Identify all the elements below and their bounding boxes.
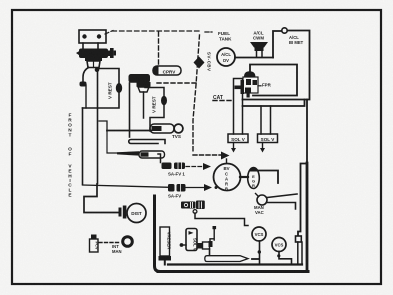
thermal vacuum switch TVS — [150, 124, 183, 133]
wire (dashed with arrow into carb) — [186, 166, 203, 168]
check valve CV1 (diamond on vent line) — [194, 57, 205, 69]
vacuum check solenoid VCS 2 — [272, 238, 286, 252]
wire (bus B, main bottom manifold) — [158, 270, 308, 273]
separator SA-FV 1 (dark ribbed fitting) — [162, 163, 172, 170]
fitting F3 (distributor hose ends) — [119, 208, 122, 217]
wire (V REST loop 2) — [145, 88, 164, 132]
wire (thick left supply bar) — [155, 196, 161, 272]
wire (FPR loop right) — [250, 65, 297, 96]
wire (EGR to right stub) — [258, 171, 279, 184]
wire (bus A, upper bottom manifold) — [168, 263, 302, 265]
wire (dashed from CPRV to fuel tank line) — [157, 82, 199, 84]
label MAN VAC — [254, 205, 264, 215]
manifold vacuum tap MAN VAC — [256, 194, 268, 206]
wire (VCS1 stem) — [259, 241, 261, 264]
wire (V REST loop 1) — [83, 69, 120, 109]
thermal vent valve TVV (dark double box) — [181, 201, 205, 210]
wire (stub to TVS branch) — [99, 121, 107, 131]
wire (straight drop from node A to manifold run) — [97, 68, 99, 184]
wire (legs connector C1 to valve V1) — [83, 43, 98, 48]
connector C1 (top-left two-bolt connector) — [79, 30, 106, 43]
wire (bi-met line to right drop R1) — [288, 31, 310, 164]
label FUEL TANK with dash-dot stub — [205, 31, 214, 33]
EGR valve — [248, 168, 260, 189]
wire (riser to bi-met connector) — [273, 31, 282, 58]
wire (dashed vertical fuel-tank vent line) — [193, 35, 200, 152]
wire (TVV to hook) — [195, 213, 248, 226]
distributor DIST — [127, 204, 146, 223]
restrictor VR1 (vacuum restrictor blob) — [116, 83, 122, 93]
label FRONT OF VEHICLE — [68, 113, 72, 199]
solenoid valve SOL V 3 (vertical box) — [186, 229, 197, 251]
node A (junction at valve V1 outlet) — [95, 68, 100, 73]
wire (hairpin loop) — [129, 140, 165, 144]
separator SA-FV (dark ribbed fitting) — [168, 184, 175, 192]
valve V2 (second vent valve, dark capsule) — [129, 74, 151, 92]
pump FPR (thermactor pump drawing) — [235, 71, 262, 97]
wire (left pipe from valve V1) — [83, 68, 89, 83]
hose run 2 (to SA-FV) — [83, 185, 170, 187]
connector N1 (open circle, A/CL BI MET tap) — [282, 28, 287, 33]
air cleaner delay valve A/CL DV — [217, 48, 235, 66]
wire (dashed signal line from connector C1 to node over fuel tank) — [105, 31, 199, 35]
taper nipple on hose run 1 — [117, 151, 139, 155]
wire (right drop R1 lower thick section to bottom bus) — [306, 163, 309, 271]
label INT MAN — [112, 244, 122, 254]
wire (dashed drop to CPRV pin) — [158, 32, 160, 65]
wire (dashed PCV to intake manifold) — [99, 242, 120, 244]
wire (branch to TVS) — [107, 130, 151, 132]
wire (arrow into carb lower port) — [184, 187, 204, 189]
wire (VCS2 stem and elbow right) — [279, 252, 292, 264]
node square N2 — [296, 236, 302, 242]
wire (dash segments toward VCS1 stem) — [252, 258, 259, 260]
wire (bus y99.5) — [243, 99, 308, 101]
vacuum reservoir VRESER — [159, 227, 172, 265]
wire (A/CL DV to CWM legs) — [235, 57, 273, 59]
valve fitting F2 (right of SOL V 3) — [197, 226, 217, 249]
wire (elbow to SA-FV 1) — [158, 154, 161, 163]
solenoid valve SOL V 2 — [258, 134, 278, 153]
wire (valve V2 center drop) — [143, 92, 145, 118]
valve V1 (carb fuel bowl vent valve, dark capsule) — [76, 48, 116, 68]
PCV valve — [90, 235, 100, 253]
wire (solenoid valve 1 loop to FPR port) — [234, 79, 271, 135]
wire (long left vertical to SA-FV run) — [82, 108, 84, 185]
wire (branch R2 down to node square) — [298, 164, 307, 237]
hose H1 (outlined tapered hose along bus A) — [205, 256, 248, 262]
carburetor CARB — [214, 164, 241, 192]
intake manifold port INT MAN (thick ring) — [123, 237, 133, 247]
elbow fitting E1 — [80, 82, 87, 87]
vacuum check solenoid VCS 1 — [252, 227, 266, 241]
solenoid valve SOL V 1 — [228, 134, 248, 153]
wire (carb to EGR) — [240, 176, 248, 178]
wire (bus y106 with right corner up) — [243, 100, 305, 107]
restrictor VR2 (vacuum restrictor blob) — [161, 96, 167, 106]
wire (dot-arrow into SOL V 3) — [180, 243, 184, 247]
fitting F1 (inline capsule) — [139, 151, 165, 158]
wire (Z-run to distributor) — [84, 184, 119, 213]
wire (elbow down-pipe) — [85, 85, 87, 108]
wire (fitting F2 drop) — [209, 249, 211, 256]
node (TVV stem ring) — [193, 210, 197, 214]
wire (valve V2 left pipe down to hairpin) — [129, 83, 131, 137]
wire (twin drop from node square to bus A) — [298, 242, 302, 264]
wire (dashed bowl vent into carb top with arrow) — [193, 154, 221, 156]
cold weather modulator A/CL CWM — [250, 31, 268, 58]
wire (man vac to right drop) — [267, 194, 298, 209]
label A/CL BI MET — [289, 35, 304, 45]
purge valve CPRV — [153, 66, 181, 75]
hose run 1 (to SA-FV 1) — [107, 131, 120, 153]
